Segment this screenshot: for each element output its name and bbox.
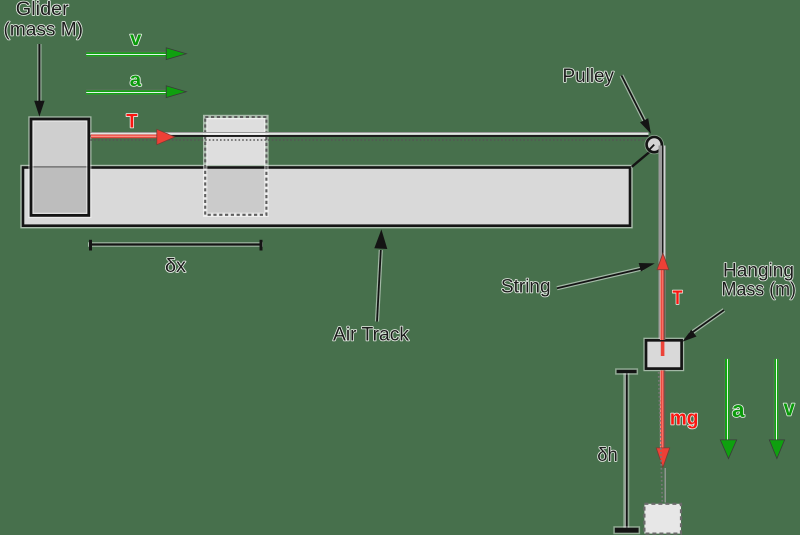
tension arrow T head bbox=[157, 129, 175, 144]
hanging mass pointer head bbox=[682, 330, 696, 342]
string horizontal white core bbox=[91, 133, 649, 135]
pulley pointer halo bbox=[622, 76, 647, 125]
acceleration arrow a (right) head bbox=[720, 440, 736, 459]
svg-text:a: a bbox=[130, 70, 142, 91]
svg-text:(mass M): (mass M) bbox=[4, 19, 84, 40]
delta-x left cap bbox=[89, 240, 92, 251]
svg-text:Air Track: Air Track bbox=[333, 324, 410, 345]
string horizontal dark line bbox=[91, 135, 649, 137]
glider track-edge seen through bbox=[31, 166, 89, 168]
tension arrow T (string) shaft bbox=[660, 268, 666, 341]
svg-text:T: T bbox=[673, 288, 683, 309]
acceleration arrow a (right) shaft bbox=[725, 359, 730, 441]
svg-text:a: a bbox=[732, 397, 745, 422]
air track pointer line bbox=[377, 250, 381, 322]
delta-x right cap bbox=[260, 240, 263, 251]
dashed glider lower fill bbox=[206, 169, 265, 214]
delta-h bottom cap bbox=[615, 528, 639, 533]
glider pointer line bbox=[38, 44, 40, 101]
acceleration arrow a shaft bbox=[86, 90, 167, 95]
pulley wheel bbox=[647, 137, 662, 152]
svg-text:Mass (m): Mass (m) bbox=[722, 280, 797, 301]
svg-text:Pulley: Pulley bbox=[563, 66, 615, 87]
glider pointer halo bbox=[37, 44, 41, 101]
dashed glider upper fill bbox=[206, 118, 265, 165]
svg-text:Glider: Glider bbox=[16, 0, 70, 20]
tension arrow T shaft (on glider) bbox=[91, 134, 158, 138]
svg-text:T: T bbox=[126, 111, 138, 132]
string vertical gray band bbox=[659, 146, 663, 341]
pulley pointer line bbox=[622, 76, 647, 125]
string horizontal gray edge bbox=[91, 132, 649, 133]
pulley bracket bbox=[632, 152, 650, 167]
string horizontal dotted line bbox=[91, 139, 649, 141]
pulley bracket shadow bbox=[631, 154, 648, 168]
delta-h gray edge bbox=[625, 373, 626, 529]
hanging mass pointer line bbox=[690, 310, 724, 334]
glider (mass M) fill upper bbox=[31, 119, 89, 166]
string pointer head bbox=[639, 263, 655, 272]
svg-text:Hanging: Hanging bbox=[723, 261, 794, 282]
string vertical white highlight bbox=[664, 146, 665, 341]
delta-h bottom cap halo bbox=[613, 526, 640, 534]
delta-h halo bbox=[623, 373, 629, 529]
air track body bbox=[23, 168, 630, 226]
dashed glider border halo bbox=[205, 117, 266, 215]
delta-h main line bbox=[626, 373, 628, 529]
glider fill lower bbox=[31, 166, 89, 215]
delta-h top cap halo bbox=[615, 368, 638, 374]
pulley pointer head bbox=[640, 118, 651, 134]
glider border bbox=[31, 119, 89, 215]
air track halo bbox=[23, 168, 630, 226]
pulley spoke bbox=[650, 145, 655, 150]
svg-text:δx: δx bbox=[165, 256, 187, 277]
velocity arrow v (right) head bbox=[769, 440, 784, 459]
delta-x measure line bbox=[91, 243, 262, 245]
velocity arrow v (right) shaft bbox=[774, 359, 779, 441]
string pointer halo bbox=[557, 268, 643, 288]
svg-text:v: v bbox=[130, 29, 142, 50]
tension arrow T (string) head bbox=[657, 253, 669, 270]
pulley wheel halo bbox=[647, 137, 662, 152]
svg-text:v: v bbox=[784, 396, 796, 421]
dotted string (future) line bbox=[659, 372, 663, 502]
string pointer line bbox=[557, 268, 643, 288]
acceleration arrow a head bbox=[166, 86, 186, 98]
dashed glider border bbox=[205, 117, 266, 215]
string vertical dark line bbox=[662, 146, 664, 341]
tension red stub inside mass box bbox=[661, 342, 665, 357]
hanging mass box halo bbox=[646, 340, 682, 368]
hanging mass box bbox=[646, 340, 682, 368]
hanging mass pointer halo bbox=[690, 310, 724, 334]
dashed future mass box bbox=[644, 504, 681, 534]
weight arrow mg head bbox=[656, 448, 670, 468]
glider pointer head bbox=[34, 101, 44, 117]
glider border halo bbox=[31, 119, 89, 215]
gray drop line right bbox=[665, 468, 666, 503]
delta-x halo bbox=[88, 242, 263, 247]
string vertical right gray edge bbox=[665, 146, 666, 341]
velocity arrow v shaft bbox=[86, 52, 167, 57]
air track pointer halo bbox=[377, 250, 381, 322]
weight arrow mg shaft bbox=[660, 370, 666, 448]
svg-text:mg: mg bbox=[670, 407, 699, 429]
velocity arrow v head bbox=[166, 48, 186, 60]
air track pointer head bbox=[374, 229, 387, 249]
svg-text:String: String bbox=[501, 277, 551, 298]
svg-text:δh: δh bbox=[597, 445, 618, 466]
delta-h top cap bbox=[617, 370, 637, 373]
